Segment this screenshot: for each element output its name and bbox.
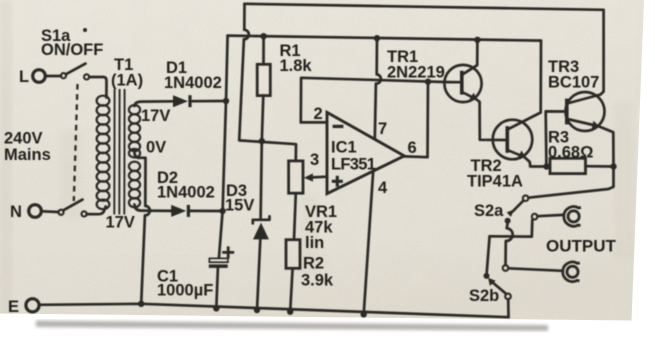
svg-text:OUTPUT: OUTPUT [546, 237, 617, 256]
svg-text:Mains: Mains [4, 146, 51, 164]
svg-text:1N4002: 1N4002 [164, 74, 222, 92]
svg-text:ON/OFF: ON/OFF [41, 41, 103, 59]
svg-text:S2b: S2b [469, 287, 499, 305]
svg-text:3: 3 [310, 151, 319, 169]
svg-text:BC107: BC107 [548, 74, 599, 92]
svg-text:R2: R2 [303, 255, 324, 273]
svg-text:17V: 17V [106, 214, 135, 232]
svg-text:3.9k: 3.9k [301, 272, 334, 290]
svg-text:1000µF: 1000µF [157, 282, 213, 300]
svg-text:0V: 0V [146, 139, 166, 157]
svg-text:(1A): (1A) [111, 72, 143, 90]
svg-text:IC1: IC1 [331, 139, 357, 157]
svg-text:N: N [10, 203, 22, 221]
svg-text:0.68Ω: 0.68Ω [548, 144, 593, 162]
svg-text:LF351: LF351 [331, 156, 376, 174]
svg-text:4: 4 [378, 179, 388, 197]
svg-text:240V: 240V [4, 130, 43, 148]
svg-text:lin: lin [305, 234, 324, 252]
svg-text:15V: 15V [225, 197, 254, 215]
svg-text:17V: 17V [141, 107, 170, 125]
svg-text:L: L [19, 68, 29, 86]
svg-text:1.8k: 1.8k [280, 57, 313, 75]
svg-text:E: E [8, 298, 19, 316]
svg-text:7: 7 [378, 120, 387, 138]
svg-text:TIP41A: TIP41A [467, 173, 523, 191]
svg-text:6: 6 [408, 139, 417, 157]
svg-text:S2a: S2a [474, 202, 504, 220]
svg-text:1N4002: 1N4002 [157, 184, 215, 202]
svg-text:2N2219: 2N2219 [387, 64, 445, 82]
svg-text:2: 2 [314, 105, 323, 123]
